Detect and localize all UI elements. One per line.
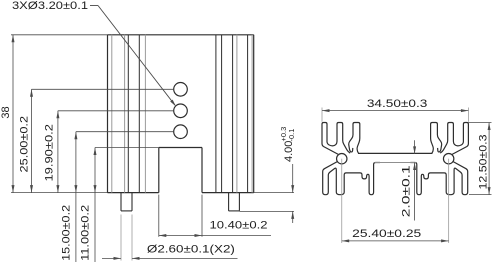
dimension line 10.40 bbox=[159, 235, 271, 237]
dimension line 4.00 lower stem bbox=[292, 211, 294, 223]
web top edge bbox=[358, 152, 432, 154]
mounting notch right wall bbox=[201, 148, 203, 193]
dimension line 11.00 bbox=[94, 148, 96, 263]
right hub hole circle bbox=[443, 154, 453, 164]
extension line notch left bbox=[158, 195, 160, 237]
extension line section left bbox=[321, 108, 323, 122]
heatsink body left edge bbox=[107, 35, 109, 193]
left hub hole circle bbox=[337, 154, 347, 164]
extension line hole 1 center bbox=[32, 88, 174, 90]
extension line section top right bbox=[468, 122, 491, 124]
extension line pin left edge bbox=[120, 215, 122, 261]
dimension line 4.00 upper stem bbox=[292, 164, 294, 193]
fin extrusion line 10 bbox=[247, 35, 249, 193]
svg-text:Ø2.60±0.1(X2): Ø2.60±0.1(X2) bbox=[147, 243, 235, 255]
extension line hole 3 center bbox=[76, 131, 174, 133]
extension line notch top bbox=[95, 147, 159, 149]
extension line top edge left bbox=[11, 34, 108, 36]
dimension line 25.40 bbox=[342, 240, 449, 242]
svg-text:34.50±0.3: 34.50±0.3 bbox=[367, 98, 428, 110]
dimension line 2.0 upper stem bbox=[414, 140, 416, 154]
dimension line 19.90 bbox=[57, 111, 59, 193]
extension line notch right bbox=[201, 195, 203, 237]
extension line pin bottom bbox=[239, 210, 294, 212]
dimension line 38 bbox=[12, 35, 14, 193]
extension line hole 2 center bbox=[58, 110, 174, 112]
svg-text:4.00: 4.00 bbox=[283, 141, 295, 162]
dimension line 15.00 bbox=[75, 132, 77, 262]
right solder pin left edge bbox=[228, 193, 230, 211]
dimension line 2.60 left part bbox=[102, 257, 121, 259]
svg-text:25.00±0.2: 25.00±0.2 bbox=[19, 116, 31, 173]
fin extrusion line 8 bbox=[232, 35, 234, 193]
fin extrusion line 5 bbox=[144, 35, 146, 193]
svg-text:10.40±0.2: 10.40±0.2 bbox=[210, 219, 268, 231]
svg-text:12.50±0.3: 12.50±0.3 bbox=[477, 135, 489, 190]
extension line body bottom right bbox=[254, 192, 294, 194]
web bottom edge center bbox=[375, 162, 416, 164]
svg-text:25.40±0.25: 25.40±0.25 bbox=[352, 228, 421, 240]
mounting hole 3 (3.20 dia) bbox=[174, 125, 188, 139]
section view: right bottom legs (mirror) bbox=[410, 161, 467, 194]
left hub centerline bbox=[341, 159, 343, 243]
section view: left bottom legs bbox=[323, 161, 380, 194]
fin extrusion line 2 bbox=[124, 35, 126, 193]
mounting hole 2 (3.20 dia) bbox=[174, 104, 188, 118]
mounting hole 1 (3.20 dia) bbox=[174, 83, 188, 97]
extension line bottom edge left bbox=[11, 192, 108, 194]
dimension line 12.50 bbox=[488, 123, 490, 195]
fin extrusion line 6 bbox=[215, 35, 217, 193]
leader line horizontal stub bbox=[90, 5, 98, 7]
svg-text:-0.1: -0.1 bbox=[287, 129, 296, 142]
svg-text:38: 38 bbox=[0, 106, 12, 118]
right hub centerline bbox=[448, 159, 450, 243]
svg-text:19.90±0.2: 19.90±0.2 bbox=[44, 124, 56, 182]
dimension line 2.0 lower stem bbox=[414, 163, 416, 221]
heatsink body right edge bbox=[253, 35, 255, 193]
fin extrusion line 11 bbox=[251, 35, 253, 193]
left solder pin left edge bbox=[120, 193, 122, 211]
fin extrusion line 7 bbox=[221, 35, 223, 193]
dimension text 4.00 +0.3 -0.1 bbox=[279, 127, 296, 162]
dimension line 25.00 bbox=[31, 89, 33, 192]
mounting notch top edge bbox=[159, 147, 202, 149]
extension line section right bbox=[467, 108, 469, 122]
heatsink body bottom edge left segment bbox=[108, 192, 159, 194]
dimension line 2.60 right part bbox=[132, 257, 238, 259]
svg-text:11.00±0.2: 11.00±0.2 bbox=[80, 205, 92, 261]
extension line section bottom right bbox=[469, 194, 492, 196]
heatsink body top edge bbox=[108, 34, 254, 36]
section view: right fin cluster outline (mirror) bbox=[431, 123, 469, 155]
svg-text:2.0±0.1: 2.0±0.1 bbox=[401, 165, 413, 217]
fin extrusion line 3 bbox=[127, 35, 129, 193]
right solder pin bottom edge bbox=[229, 210, 240, 212]
svg-text:+0.3: +0.3 bbox=[279, 127, 288, 142]
extension line pin right edge bbox=[131, 215, 133, 261]
dimension line 34.50 bbox=[322, 110, 468, 112]
fin extrusion line 4 bbox=[138, 35, 140, 193]
heatsink body bottom edge right segment bbox=[202, 192, 254, 194]
mounting notch left wall bbox=[158, 148, 160, 193]
left solder pin right edge bbox=[131, 193, 133, 211]
svg-text:15.00±0.2: 15.00±0.2 bbox=[61, 205, 73, 261]
fin extrusion line 9 bbox=[236, 35, 238, 193]
leader line to hole 2 bbox=[98, 6, 175, 106]
right solder pin right edge bbox=[238, 193, 240, 211]
svg-text:3XØ3.20±0.1: 3XØ3.20±0.1 bbox=[12, 0, 88, 12]
left solder pin bottom edge bbox=[121, 210, 132, 212]
fin extrusion line 1 bbox=[111, 35, 113, 193]
section view: left fin cluster outline bbox=[322, 123, 360, 155]
